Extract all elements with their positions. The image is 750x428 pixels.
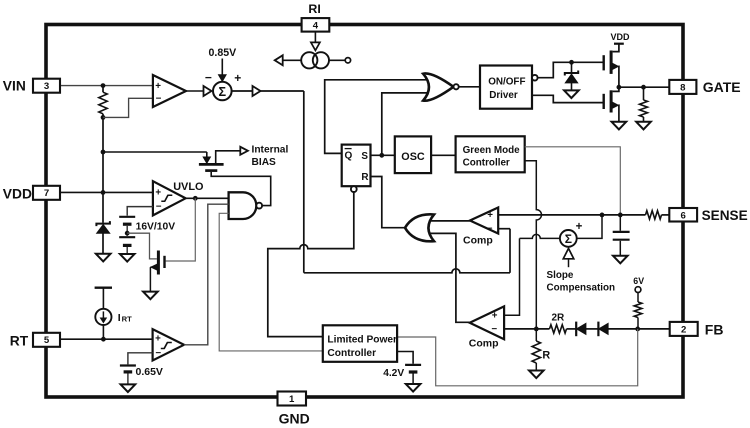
VDD supply bar [614, 43, 624, 45]
pin 2 FB box [670, 322, 698, 336]
wire Q1 source to gate node [617, 66, 620, 87]
transistor Q4 source arrow [151, 264, 157, 270]
svg-text:+: + [155, 334, 161, 345]
wire VDD to high-side drain [613, 44, 619, 52]
transistor Q4 threshold switch channel bar [157, 251, 160, 275]
transistor Q2 low-side channel bar [610, 90, 613, 112]
RT comparator hysteresis glyph [161, 343, 172, 349]
svg-text:8: 8 [680, 82, 686, 93]
wire driver bottom output to low-side gate [532, 95, 603, 102]
svg-text:RI: RI [308, 2, 320, 16]
buffer arrow into summer [204, 86, 212, 96]
svg-text:OSC: OSC [401, 151, 425, 163]
node junction dot on RT line [101, 337, 106, 342]
svg-text:VDD: VDD [611, 32, 631, 42]
block Limited Power Controller box [323, 325, 397, 362]
transistor Q4 gate bar [163, 256, 165, 268]
pin 8 GATE box [669, 80, 696, 94]
wire Qbar to NOR upper input [325, 80, 427, 154]
6V terminal circle [635, 287, 641, 293]
wire Q2 source to ground [617, 105, 620, 122]
transistor Q2 low-side gate bar [603, 94, 605, 109]
wire into Comp1 inverting input [498, 228, 510, 230]
gate U5 NAND output bubble [256, 203, 262, 209]
wire rail to bias transistor drain [103, 151, 207, 153]
node junction dot FB at divider [534, 327, 539, 332]
svg-text:−: − [205, 71, 212, 85]
wire resistor tap to op-amp inverting input [103, 98, 153, 117]
svg-text:GATE: GATE [703, 79, 741, 95]
svg-text:ON/OFF: ON/OFF [488, 76, 525, 87]
svg-text:2: 2 [681, 324, 686, 335]
current source IRT arrow [102, 311, 104, 318]
svg-text:4.2V: 4.2V [383, 368, 404, 379]
ground below capacitor [613, 256, 628, 264]
resistor gate pulldown [640, 100, 648, 117]
transistor Q1 high-side channel bar [610, 51, 613, 74]
svg-text:3: 3 [44, 81, 49, 92]
wire green mode output to sense node [525, 147, 621, 215]
zener diode Z1 body [97, 225, 110, 234]
zener diode Z2 cathode bar [565, 71, 578, 76]
svg-text:−: − [156, 201, 162, 212]
arrowhead into current mirror [311, 42, 320, 50]
wire drain drop into bias transistor [206, 152, 208, 157]
wire zener Z2 from gate line [571, 62, 573, 73]
svg-text:−: − [156, 94, 162, 105]
wire VIN rail from pin 3 to resistor and rail down to zener [102, 86, 104, 93]
battery 16V/10V upper cell [119, 216, 135, 218]
arrowhead 0.85V into summer [219, 75, 227, 82]
svg-text:+: + [487, 210, 493, 221]
svg-text:+: + [155, 187, 161, 198]
gate U7 NOR body [423, 73, 453, 100]
node junction dot at pulldown resistor [641, 85, 646, 90]
flip-flop U6 SR latch box [342, 145, 371, 187]
wire pulldown resistor to ground [643, 117, 645, 122]
node junction dot VDD on rail [101, 190, 106, 195]
node junction dot below resistor [101, 115, 106, 120]
ground below resistor R [529, 371, 544, 379]
diode D1 cathode bar [575, 322, 577, 337]
supply bar of IRT current source [95, 287, 112, 289]
wire pulldown resistor top [643, 87, 645, 100]
wire NOR output to driver [459, 86, 480, 88]
transistor Q2 source arrow [613, 102, 619, 108]
resistor R to ground from FB divider [535, 329, 537, 341]
wire current mirror right terminal [329, 59, 345, 61]
gate U5 NAND body [229, 192, 257, 219]
wire R to ground [535, 363, 537, 371]
svg-text:R: R [542, 349, 550, 361]
svg-text:Compensation: Compensation [547, 283, 616, 294]
node junction dot UVLO output [193, 196, 198, 201]
wire S input to OSC [371, 154, 395, 156]
svg-text:+: + [234, 71, 241, 85]
wire 0.85V reference into summer [221, 59, 223, 76]
arrowhead into bias transistor [203, 157, 210, 163]
diode D2 cathode bar [597, 322, 599, 337]
pin 4 RI box [302, 18, 330, 32]
wire green mode output to FB node with vertical hop [525, 161, 542, 329]
ground below threshold switch [143, 292, 158, 300]
resistor SENSE series [646, 211, 662, 219]
pin 3 VIN box [33, 79, 60, 93]
wire slope line to sigma with hop [520, 234, 560, 238]
arrow slope compensation into summer [563, 248, 574, 258]
svg-text:1: 1 [289, 394, 295, 405]
wire UVLO output down to threshold switch gate [166, 198, 196, 261]
ground below low-side MOSFET [612, 122, 627, 130]
node junction dot on S line [379, 153, 384, 158]
capacitor C1 top plate [613, 231, 630, 233]
svg-text:BIAS: BIAS [252, 157, 277, 168]
svg-text:−: − [491, 324, 497, 335]
transistor Q1 source arrow [613, 64, 619, 70]
battery 4.2V [405, 364, 421, 366]
current source IRT circle [95, 309, 111, 325]
wire S line up to NOR lower input [382, 93, 428, 155]
resistor divider R at VIN [99, 92, 107, 114]
summer U2 sigma circle [213, 82, 232, 101]
svg-text:0.65V: 0.65V [136, 366, 163, 378]
svg-text:Green Mode: Green Mode [463, 145, 521, 156]
wire limited power controller to NAND input [219, 213, 323, 351]
arrow to Internal BIAS [240, 147, 248, 155]
resistor 2R [550, 325, 567, 333]
wire capacitor to ground [619, 241, 621, 256]
wire summer output line to centre drop [261, 90, 304, 92]
UVLO hysteresis glyph [161, 195, 172, 201]
pin 7 VDD box [33, 186, 60, 200]
wire op-amp output to buffer arrow [186, 90, 204, 92]
wire UVLO minus to 16V/10V battery [127, 207, 153, 216]
ground below 0.65V battery [121, 384, 136, 392]
svg-text:SENSE: SENSE [702, 208, 748, 223]
wire bias transistor source to internal bias arrow [216, 151, 241, 165]
arrow current mirror output left [275, 55, 283, 65]
wire current mirror left output [283, 59, 301, 61]
svg-text:Σ: Σ [219, 85, 227, 99]
node junction dot internal-bias tap on rail [101, 150, 106, 155]
block OSC box [395, 136, 431, 173]
wire driver top output to high-side gate [538, 62, 603, 77]
svg-text:Q: Q [345, 150, 353, 161]
wire UVLO output to NAND input [186, 197, 229, 199]
wire pin 4 to current mirror [314, 32, 316, 43]
wire 6V to pull-up resistor [637, 293, 639, 303]
wire Q2 drain to gate node [613, 87, 619, 91]
node junction dot filter cap join [618, 213, 623, 218]
capacitor C1 bottom plate [613, 239, 630, 241]
flip-flop Qbar overline [345, 148, 352, 150]
svg-text:−: − [155, 348, 161, 359]
wire pull-up resistor to FB node [637, 318, 639, 329]
wire rail to UVLO plus input [103, 191, 153, 193]
wire OR lower input to Comp2 output [431, 233, 470, 322]
block ON/OFF Driver box [480, 66, 532, 109]
driver inverting output bubble [532, 75, 538, 81]
svg-text:S: S [361, 151, 368, 162]
svg-text:RT: RT [122, 314, 132, 323]
wire sense node to capacitor [619, 215, 621, 231]
wire 0.65V battery to ground [127, 374, 129, 385]
wire R input from OR gate [371, 177, 406, 228]
node junction dot battery centre tap [125, 231, 130, 236]
svg-text:Limited Power: Limited Power [327, 334, 397, 345]
diode D2 body [599, 323, 608, 334]
wire OSC to green mode controller [431, 154, 456, 156]
wire Q4 source to ground [149, 267, 151, 291]
wire summer output to arrow [232, 90, 253, 92]
svg-text:GND: GND [279, 411, 310, 427]
wire SENSE line from Comp1 to resistor [498, 214, 645, 216]
transistor Q3 internal bias upper bar [199, 163, 224, 166]
svg-text:0.85V: 0.85V [209, 47, 237, 59]
wire 4.2V battery to ground [412, 373, 414, 384]
ground below zener [96, 254, 111, 262]
wire battery to ground [126, 247, 128, 254]
node junction dot slope-comp join [600, 213, 605, 218]
svg-text:7: 7 [44, 188, 49, 199]
wire RT pin to comparator plus input [60, 338, 153, 340]
block Green Mode Controller box [456, 136, 525, 172]
current source IRT arrowhead [101, 318, 107, 323]
transistor Q3 gate bar [205, 169, 217, 172]
svg-text:+: + [576, 221, 583, 233]
svg-text:5: 5 [44, 335, 50, 346]
open terminal circle of current mirror [345, 58, 350, 63]
svg-text:6V: 6V [633, 276, 644, 286]
ground below pulldown resistor [636, 122, 651, 130]
buffer arrow after summer [253, 86, 261, 96]
svg-text:UVLO: UVLO [173, 181, 204, 193]
wire sigma output to sense node [577, 215, 602, 239]
svg-text:Σ: Σ [565, 232, 572, 246]
ground below 16V/10V battery [120, 254, 135, 262]
svg-text:−: − [487, 223, 493, 234]
comparator U8 Comp1 triangle [470, 208, 498, 234]
wire VIN pin to op-amp non-inverting input [60, 85, 153, 87]
wire LPC to 4.2V battery [397, 352, 413, 364]
wire FB line Comp2 minus to 2R [504, 328, 549, 330]
svg-text:2R: 2R [552, 312, 566, 323]
pin 5 RT box [33, 333, 60, 347]
node junction dot on gate drive line [569, 60, 574, 65]
svg-text:R: R [361, 172, 368, 183]
gate U9 OR body [405, 214, 434, 241]
ground below zener Z2 [564, 90, 579, 98]
node junction dot at VIN pin line [101, 83, 106, 88]
zener diode Z2 body [565, 74, 577, 83]
wire VDD pin to rail [60, 191, 103, 193]
svg-text:Slope: Slope [547, 270, 574, 281]
wire Comp1 output to OR gate input [431, 220, 470, 222]
outer IC boundary border [46, 25, 683, 398]
comparator U4 RT triangle [153, 329, 184, 360]
wire 2R to diode D1 [567, 328, 577, 330]
svg-text:VIN: VIN [3, 79, 26, 94]
svg-text:Internal: Internal [252, 145, 289, 156]
comparator U3 UVLO triangle [153, 181, 186, 215]
svg-text:Driver: Driver [489, 90, 518, 101]
svg-text:+: + [492, 310, 498, 321]
pin 1 GND box [278, 392, 307, 406]
pin 6 SENSE box [669, 208, 697, 222]
wire current source to RT line [102, 325, 104, 339]
svg-text:+: + [155, 81, 161, 92]
op-amp U1 VIN buffer [153, 75, 186, 107]
current mirror circle right [313, 52, 329, 68]
resistor R body [532, 341, 540, 363]
wire FB node feedback loop to limited power controller [397, 329, 638, 386]
svg-text:Comp: Comp [469, 338, 499, 350]
node junction dot FB pull-up node [635, 327, 640, 332]
wire NAND output stub [261, 205, 263, 207]
svg-text:FB: FB [705, 321, 724, 337]
wire battery tap to threshold switch drain [127, 233, 157, 259]
svg-text:4: 4 [313, 20, 319, 31]
wire RT comparator output up to NAND input [184, 204, 229, 345]
wire zener Z2 to ground [571, 83, 573, 91]
gate U7 NOR output bubble [454, 84, 459, 89]
battery 0.65V [120, 364, 136, 366]
svg-text:Controller: Controller [463, 158, 510, 169]
wire Comp2 plus up to slope line [504, 238, 519, 315]
ground below 4.2V battery [406, 384, 421, 392]
transistor Q1 high-side gate bar [603, 55, 605, 70]
svg-text:I: I [118, 312, 121, 324]
diode D1 body [577, 323, 586, 334]
wire between battery cells [126, 226, 128, 236]
svg-text:6: 6 [681, 210, 686, 221]
current mirror circle left [301, 52, 317, 68]
wire Q3 gate to NAND output [211, 172, 271, 206]
svg-text:RT: RT [10, 334, 29, 349]
wire RT comparator minus to 0.65V battery [128, 353, 153, 365]
wire slope compensation arrow stem [568, 259, 570, 267]
wire D2 to pin 2 [608, 328, 670, 330]
wire supply bar to current source [102, 288, 104, 309]
wire 0.85V line to Comp1 inverting input with hop [304, 269, 510, 273]
flip-flop bottom output bubble [351, 186, 357, 192]
wire zener to ground [102, 233, 104, 254]
battery lower cell [119, 236, 135, 238]
comparator U10 Comp2 triangle [470, 306, 504, 339]
wire flip-flop Q output to limited power controller with hop [268, 192, 354, 337]
svg-text:VDD: VDD [3, 187, 32, 202]
node junction dot GATE output node [617, 85, 622, 90]
wire centre drop vertical of 0.85V line [303, 91, 305, 273]
svg-text:Controller: Controller [327, 348, 376, 359]
zener diode Z1 on rail cathode bar [96, 221, 110, 226]
svg-text:Comp: Comp [463, 234, 493, 246]
wire D1 to D2 [586, 328, 599, 330]
wire vertical up to Comp1 inverting input [509, 229, 511, 273]
svg-text:16V/10V: 16V/10V [136, 221, 176, 232]
summer U11 slope compensation sigma circle [560, 230, 577, 247]
wire resistor to pin 6 [662, 214, 670, 216]
resistor FB pull-up [634, 302, 642, 318]
wire gate node to pin 8 [619, 86, 669, 88]
